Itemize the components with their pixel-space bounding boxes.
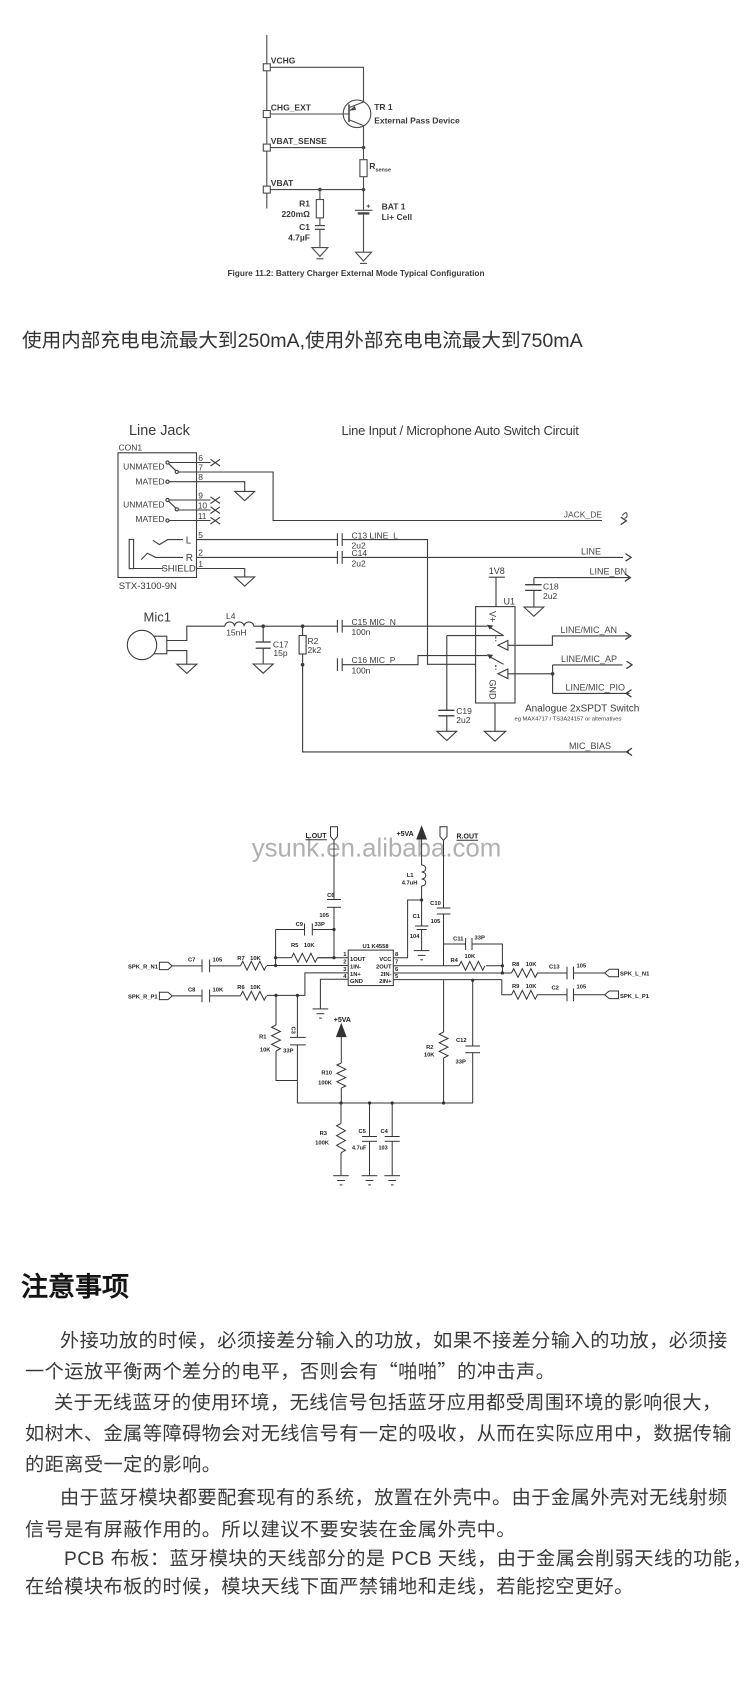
svg-text:CON1: CON1 [119, 443, 143, 453]
svg-text:10K: 10K [250, 985, 261, 991]
wire mic to ground [167, 651, 187, 665]
resistor R5 [276, 957, 292, 959]
svg-text:R7: R7 [237, 956, 244, 962]
svg-text:+5VA: +5VA [397, 831, 414, 838]
pin 2 wire to C14 [197, 556, 338, 558]
svg-text:2k2: 2k2 [308, 645, 322, 655]
node VBAT_SENSE pin square [263, 144, 270, 151]
capacitor C10 [437, 907, 451, 909]
svg-text:33P: 33P [315, 922, 325, 928]
svg-text:100n: 100n [352, 665, 371, 675]
capacitor C9 [276, 929, 305, 931]
pin 10 wire [178, 509, 210, 511]
wire: VBAT rail [270, 189, 363, 191]
wire C14 to LINE [342, 556, 623, 558]
wire L.OUT to C6 [333, 840, 335, 899]
svg-text:10K: 10K [526, 984, 537, 990]
svg-text:TR 1: TR 1 [374, 102, 393, 112]
wire LINE/MIC_PIO [553, 692, 630, 694]
svg-text:R.OUT: R.OUT [457, 834, 480, 841]
svg-text:C7: C7 [188, 957, 195, 963]
wire L4 to C15 [254, 625, 338, 627]
svg-text:1OUT: 1OUT [350, 957, 366, 963]
net stub 1V8 [489, 576, 505, 578]
paragraph line 1 [60, 1325, 728, 1353]
svg-text:C9: C9 [296, 922, 304, 928]
svg-text:L: L [186, 535, 192, 546]
ground under C1 [312, 248, 328, 257]
ground under battery [356, 252, 372, 261]
svg-text:1: 1 [198, 559, 203, 569]
svg-text:LINE/MIC_PIO: LINE/MIC_PIO [565, 683, 625, 693]
wire: R1 to C1 [319, 218, 321, 226]
svg-text:C14: C14 [352, 548, 368, 558]
svg-text:2IN-: 2IN- [381, 972, 392, 978]
svg-text:105: 105 [431, 919, 441, 925]
svg-text:VCC: VCC [379, 957, 392, 963]
svg-text:220mΩ: 220mΩ [281, 209, 310, 219]
svg-text:GND: GND [350, 979, 363, 985]
svg-text:+: + [366, 203, 370, 210]
ground under C5 [362, 1175, 378, 1177]
svg-text:5: 5 [198, 530, 203, 540]
R contact symbol [141, 553, 183, 559]
svg-text:U1 K4558: U1 K4558 [363, 944, 390, 950]
svg-text:SPK_R_P1: SPK_R_P1 [128, 994, 158, 1000]
capacitor C12 [472, 980, 474, 1046]
svg-text:6: 6 [395, 967, 399, 973]
svg-text:1: 1 [343, 952, 347, 958]
tag SPK_L_N1 [605, 969, 619, 977]
paragraph line 8 [64, 1543, 750, 1571]
capacitor C13 [336, 533, 338, 546]
svg-text:STX-3100-9N: STX-3100-9N [119, 581, 177, 592]
svg-text:10K: 10K [526, 962, 537, 968]
paragraph line 7 [25, 1514, 516, 1542]
paragraph line 4 [25, 1418, 732, 1446]
svg-text:100K: 100K [318, 1081, 333, 1087]
svg-text:UNMATED: UNMATED [123, 499, 164, 509]
svg-text:R8: R8 [512, 962, 520, 968]
resistor R6 [241, 991, 267, 1000]
svg-text:LINE: LINE [581, 546, 601, 556]
svg-text:LINE_BN: LINE_BN [589, 567, 627, 577]
svg-text:C10: C10 [430, 901, 441, 907]
inductor L1 [422, 865, 426, 886]
svg-text:MATED: MATED [135, 476, 164, 486]
power +5VA arrow (lower) [337, 1024, 346, 1036]
capacitor C19 [438, 709, 454, 711]
wire LINE_BN [534, 577, 629, 579]
wire: VCHG to transistor emitter column [270, 67, 363, 102]
wire: C1 to ground [319, 229, 321, 247]
svg-text:33P: 33P [456, 1060, 466, 1066]
svg-text:9: 9 [198, 491, 203, 501]
buffer triangle switch1 [498, 641, 508, 651]
svg-text:R6: R6 [237, 985, 245, 991]
paragraph line 5 [25, 1449, 221, 1477]
svg-text:R4: R4 [451, 958, 459, 964]
wire: transistor collector down [363, 126, 365, 160]
capacitor C1 [415, 925, 428, 927]
svg-text:C6: C6 [327, 893, 335, 899]
no-connect X pin 9 [211, 497, 221, 504]
svg-text:R1: R1 [259, 1035, 267, 1041]
svg-text:2: 2 [198, 548, 203, 558]
wire C6/C9 column [333, 907, 335, 957]
wire pin6 to R8 [393, 972, 511, 974]
svg-text:105: 105 [319, 913, 329, 919]
flag R.OUT [440, 827, 447, 841]
wire mic to L4 [167, 626, 225, 640]
arrow JACK_DE [621, 517, 627, 525]
pin 6 wire [169, 462, 211, 464]
shield wire [134, 568, 163, 570]
svg-text:Figure 11.2: Battery Charger E: Figure 11.2: Battery Charger External Mo… [227, 268, 484, 278]
svg-text:Mic1: Mic1 [144, 610, 171, 625]
ground under R3 [333, 1175, 349, 1177]
wire C19 [446, 636, 448, 711]
capacitor C16 [336, 658, 338, 671]
resistor R2 [443, 980, 445, 1032]
svg-text:104: 104 [410, 934, 420, 940]
svg-text:CHG_EXT: CHG_EXT [271, 102, 312, 112]
capacitor C14 [336, 551, 338, 564]
svg-text:105: 105 [577, 985, 587, 991]
paragraph line 2 [25, 1356, 555, 1384]
svg-text:C1: C1 [299, 222, 310, 232]
wire R5 to pin1 [318, 957, 335, 959]
svg-text:C5: C5 [359, 1129, 367, 1135]
arrow LINE/MIC_AP [627, 661, 633, 669]
ground at pin 1 [235, 577, 255, 586]
switch lever pins 6-7 [166, 461, 169, 464]
svg-text:10K: 10K [213, 987, 224, 993]
wire buffer2 junction [508, 673, 553, 675]
pin 1 wire to ground [197, 569, 245, 577]
svg-text:GND: GND [488, 680, 498, 701]
transistor TR 1 [343, 100, 371, 128]
resistor R1 [316, 200, 323, 218]
capacitor C17 [262, 626, 264, 642]
svg-text:100n: 100n [352, 627, 371, 637]
tag SPK_L_P1 [605, 991, 619, 999]
svg-text:C4: C4 [381, 1129, 389, 1135]
ground under C4 [384, 1175, 400, 1177]
svg-text:External Pass Device: External Pass Device [374, 115, 460, 125]
paragraph line 3 [54, 1387, 722, 1415]
svg-text:10K: 10K [260, 1048, 271, 1054]
wire: VBAT down to R1 [319, 190, 321, 200]
mic Mic1 symbol [154, 636, 167, 654]
svg-text:C16 MIC_P: C16 MIC_P [352, 655, 396, 665]
svg-text:1IN-: 1IN- [350, 964, 361, 970]
L contact symbol [153, 540, 183, 545]
wire C16 to switch2 pole (jog) [342, 656, 487, 665]
no-connect X pin 10 [211, 507, 221, 514]
switch2 lever [490, 657, 504, 664]
svg-text:10K: 10K [424, 1053, 435, 1059]
wire bottom bus [297, 1045, 472, 1103]
pin 7 wire to JACK_DE [178, 472, 602, 521]
ground under C17 [253, 664, 273, 673]
tag SPK_R_P1 [159, 992, 172, 999]
svg-text:SPK_L_P1: SPK_L_P1 [620, 994, 650, 1000]
wire: left pin bus vertical [266, 35, 268, 209]
svg-text:C8: C8 [188, 987, 196, 993]
IC U1 box [476, 607, 515, 703]
svg-text:UNMATED: UNMATED [123, 462, 164, 472]
svg-text:10K: 10K [465, 954, 476, 960]
svg-text:C2: C2 [552, 986, 559, 992]
paragraph line 9 [25, 1571, 634, 1599]
svg-text:3: 3 [343, 967, 347, 973]
resistor R2 [302, 626, 304, 635]
svg-text:LINE/MIC_AN: LINE/MIC_AN [560, 625, 617, 635]
paragraph line 6 [60, 1482, 728, 1510]
ground under C18 [524, 607, 544, 616]
svg-text:100K: 100K [315, 1141, 330, 1147]
wire R2 down to MIC_BIAS [303, 665, 629, 752]
svg-text:1V8: 1V8 [489, 566, 505, 576]
IC U1 K4558 box [348, 950, 393, 986]
svg-text:MATED: MATED [135, 514, 164, 524]
svg-text:4.7uF: 4.7uF [352, 1146, 367, 1152]
wire R7 to pin2 [267, 965, 348, 967]
svg-text:7: 7 [395, 960, 398, 966]
svg-text:6: 6 [198, 453, 203, 463]
wire pin4 to ground [320, 979, 348, 1009]
svg-text:SHIELD: SHIELD [161, 564, 195, 575]
pin 11 wire [166, 519, 169, 522]
svg-text:L1: L1 [407, 873, 415, 879]
svg-text:C1: C1 [413, 914, 421, 920]
svg-text:L.OUT: L.OUT [306, 833, 328, 840]
junction at R1 top [318, 188, 322, 192]
svg-text:R2: R2 [426, 1045, 433, 1051]
node VCHG pin square [263, 64, 270, 71]
wire C13 to switch throw [342, 540, 503, 665]
pin 8 wire to ground [166, 480, 169, 483]
svg-text:C18: C18 [543, 582, 559, 592]
svg-text:105: 105 [213, 957, 223, 963]
resistor R1 [275, 995, 277, 1025]
wire C15 to switch1 pole [342, 625, 487, 627]
wire to C8 [172, 995, 202, 997]
ground bar under pin4 [313, 1008, 329, 1010]
resistor R8 [512, 969, 538, 978]
svg-text:C13: C13 [549, 965, 560, 971]
svg-text:C3: C3 [290, 1027, 296, 1035]
svg-text:C12: C12 [456, 1038, 467, 1044]
ground under C19 [437, 731, 457, 740]
wire pin1 [318, 957, 349, 959]
svg-text:8: 8 [395, 952, 399, 958]
switch1 throw wire from C19 node [447, 635, 504, 637]
capacitor C18 [533, 578, 535, 585]
svg-text:L4: L4 [226, 611, 236, 621]
capacitor C7 [201, 960, 203, 973]
svg-text:10: 10 [198, 501, 208, 511]
ground at pin 8 [235, 491, 255, 500]
svg-text:2IN+: 2IN+ [379, 979, 392, 985]
svg-text:V+: V+ [488, 611, 498, 622]
svg-text:33P: 33P [475, 935, 485, 941]
svg-text:Li+ Cell: Li+ Cell [382, 212, 412, 222]
arrow LINE [626, 554, 632, 562]
arrow LINE/MIC_AN [625, 632, 631, 640]
Chinese line: charging current note [22, 324, 583, 353]
svg-text:MIC_BIAS: MIC_BIAS [569, 741, 611, 751]
resistor Rsense [360, 160, 367, 177]
svg-text:15p: 15p [273, 648, 287, 658]
svg-text:SPK_L_N1: SPK_L_N1 [620, 972, 650, 978]
svg-text:JACK_DE: JACK_DE [564, 509, 603, 519]
svg-text:eg MAX4717 / TS3A24157 or alt: eg MAX4717 / TS3A24157 or alternatives [515, 717, 622, 723]
svg-text:105: 105 [577, 964, 587, 970]
ground at mic [177, 664, 197, 673]
buffer triangle switch2 [498, 669, 508, 679]
svg-text:2u2: 2u2 [352, 558, 366, 568]
svg-text:R1: R1 [299, 198, 310, 208]
svg-text:5: 5 [395, 974, 399, 980]
arrow LINE_BN [625, 574, 631, 582]
no-connect X pin 6 [211, 459, 221, 466]
svg-text:103: 103 [379, 1146, 388, 1152]
pin 5 wire to C13 [197, 539, 338, 541]
svg-text:8: 8 [198, 472, 203, 482]
resistor R7 [241, 961, 267, 970]
wire: CHG_EXT to transistor base [270, 113, 349, 115]
arrow LINE/MIC_PIO [626, 690, 632, 698]
inductor L4 [225, 622, 254, 626]
svg-text:BAT 1: BAT 1 [382, 201, 406, 211]
switch1 lever [490, 628, 504, 636]
node CHG_EXT pin square [263, 111, 270, 118]
svg-text:2: 2 [343, 960, 346, 966]
connector CON1 box [118, 453, 197, 578]
capacitor C1 [315, 225, 325, 227]
arrow MIC_BIAS [627, 748, 633, 756]
svg-text:U1: U1 [504, 597, 516, 607]
svg-text:R9: R9 [512, 984, 520, 990]
svg-text:R5: R5 [291, 943, 299, 949]
svg-text:LINE/MIC_AP: LINE/MIC_AP [561, 654, 617, 664]
capacitor C5 [369, 1103, 371, 1137]
capacitor C11 [444, 943, 466, 945]
svg-text:2OUT: 2OUT [376, 964, 392, 970]
wire LINE/MIC_AP [553, 664, 623, 666]
wire L1 to C1 and pin8 [421, 886, 423, 926]
svg-text:VCHG: VCHG [271, 56, 296, 66]
svg-text:VBAT: VBAT [271, 178, 294, 188]
capacitor C2 [566, 988, 568, 1001]
vertical C9/R5/R7 node [275, 930, 277, 966]
junction at battery top [362, 188, 366, 192]
shield bracket [129, 539, 133, 568]
node VBAT pin square [263, 186, 270, 193]
switch lever pins 9-10 [166, 498, 169, 501]
svg-text:2u2: 2u2 [456, 715, 470, 725]
svg-text:Rsense: Rsense [369, 161, 391, 174]
svg-text:Analogue 2xSPDT Switch: Analogue 2xSPDT Switch [525, 704, 639, 715]
svg-text:Line Input / Microphone Auto S: Line Input / Microphone Auto Switch Circ… [342, 423, 580, 438]
wire U1 GND pin [494, 703, 496, 731]
wire pin5 to R9 [393, 979, 502, 981]
svg-text:11: 11 [198, 511, 207, 521]
junction at VBAT_SENSE/collector [362, 146, 366, 150]
capacitor C6 [327, 899, 341, 901]
tag SPK_R_N1 [159, 962, 172, 969]
capacitor C3 [296, 995, 298, 1037]
capacitor C13 (output) [566, 967, 568, 980]
svg-text:33P: 33P [283, 1049, 293, 1055]
svg-text:R10: R10 [321, 1071, 332, 1077]
power +5VA arrow [417, 827, 426, 839]
svg-text:C15 MIC_N: C15 MIC_N [352, 617, 396, 627]
svg-text:SPK_R_N1: SPK_R_N1 [128, 964, 159, 970]
svg-text:+5VA: +5VA [334, 1017, 351, 1024]
svg-text:4.7µF: 4.7µF [288, 232, 310, 242]
resistor R9 [512, 990, 538, 999]
resistor R3 [340, 1103, 342, 1123]
battery BAT 1 [355, 209, 373, 211]
wire: VBAT_SENSE to Rsense node [270, 147, 363, 149]
svg-text:VBAT_SENSE: VBAT_SENSE [271, 136, 327, 146]
svg-text:C11: C11 [453, 936, 464, 942]
svg-text:4.7uH: 4.7uH [402, 881, 418, 887]
svg-text:1N+: 1N+ [350, 972, 361, 978]
svg-text:10K: 10K [304, 943, 315, 949]
wire to C7 [172, 965, 202, 967]
dashed control switch2 [495, 665, 497, 670]
pin 9 wire [169, 499, 211, 501]
svg-text:C13 LINE_L: C13 LINE_L [352, 530, 399, 540]
svg-text:2u2: 2u2 [543, 591, 557, 601]
svg-text:7: 7 [198, 463, 203, 473]
no-connect X pin 11 [211, 517, 221, 524]
ground under C1 [414, 950, 430, 952]
capacitor C4 [391, 1103, 393, 1137]
dashed control switch1 [495, 637, 497, 642]
svg-text:15nH: 15nH [226, 628, 246, 638]
capacitor C8 [201, 990, 203, 1003]
resistor R10 [340, 1037, 342, 1063]
wire pin7 with resistor R4 [393, 965, 459, 967]
wire buffer1 to LINE/MIC_AN [508, 636, 629, 645]
svg-text:Line Jack: Line Jack [129, 423, 191, 439]
heading 注意事项 [21, 1265, 129, 1304]
wire R6 to pin3 jog [267, 973, 348, 996]
wire R.OUT to C10 [443, 840, 445, 908]
ground under U1 [484, 731, 505, 741]
capacitor C15 [336, 620, 338, 633]
svg-text:R: R [186, 553, 193, 564]
flag L.OUT [331, 827, 338, 841]
svg-text:R3: R3 [320, 1131, 328, 1137]
svg-text:10K: 10K [250, 956, 261, 962]
